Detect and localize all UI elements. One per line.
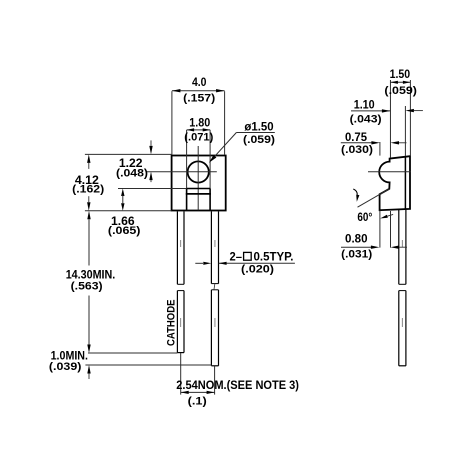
svg-text:CATHODE: CATHODE: [165, 300, 177, 347]
svg-text:0.80: 0.80: [345, 231, 368, 245]
svg-text:(.043): (.043): [350, 113, 382, 125]
svg-text:1.50: 1.50: [390, 67, 411, 81]
svg-text:0.5TYP.: 0.5TYP.: [254, 249, 294, 263]
svg-text:2.54NOM.(SEE NOTE 3): 2.54NOM.(SEE NOTE 3): [176, 378, 299, 392]
svg-text:(.031): (.031): [341, 249, 372, 261]
svg-text:14.30MIN.: 14.30MIN.: [66, 267, 116, 281]
svg-text:(.563): (.563): [71, 281, 103, 293]
svg-text:(.065): (.065): [108, 225, 141, 237]
svg-text:ø1.50: ø1.50: [244, 120, 274, 134]
svg-text:(.1): (.1): [188, 396, 207, 408]
svg-text:60°: 60°: [357, 210, 372, 224]
svg-text:1.80: 1.80: [189, 115, 210, 129]
svg-text:0.75: 0.75: [345, 130, 367, 144]
svg-text:(.039): (.039): [49, 361, 82, 373]
svg-text:(.162): (.162): [72, 183, 104, 195]
svg-text:(.059): (.059): [384, 85, 417, 97]
svg-text:(.059): (.059): [243, 134, 275, 146]
svg-text:(.071): (.071): [184, 132, 213, 144]
svg-text:1.10: 1.10: [354, 98, 375, 112]
svg-text:(.020): (.020): [241, 264, 274, 276]
svg-text:(.157): (.157): [183, 92, 215, 104]
svg-text:4.0: 4.0: [192, 75, 207, 89]
svg-text:(.030): (.030): [341, 144, 373, 156]
svg-text:(.048): (.048): [116, 168, 148, 180]
svg-text:2–: 2–: [230, 249, 243, 263]
